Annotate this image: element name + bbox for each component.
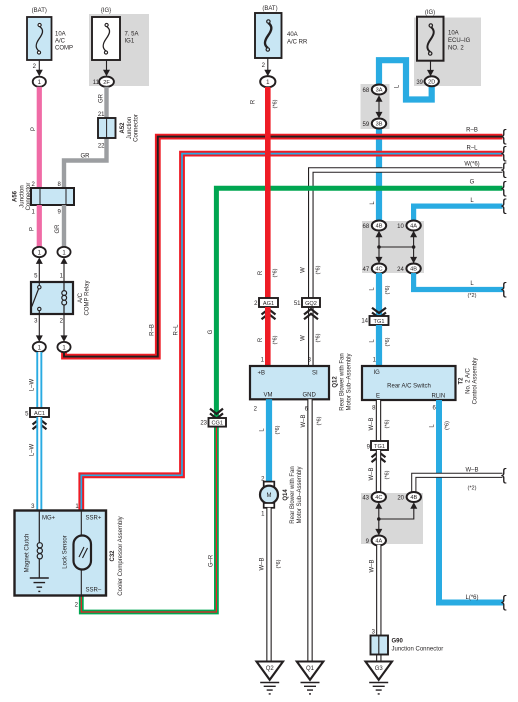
continuation brace R-L [501,143,507,162]
node label L on 2D wire [395,84,401,88]
compressor assembly C32 [15,504,125,609]
svg-text:Junction: Junction [20,185,26,207]
svg-text:Cooler Compressor Assembly: Cooler Compressor Assembly [118,516,124,595]
node 4B block2 [397,492,421,502]
svg-text:A52: A52 [120,122,126,134]
svg-text:4B: 4B [410,495,417,501]
svg-text:(*6): (*6) [445,421,451,430]
svg-text:40A: 40A [287,32,298,38]
svg-text:Junction: Junction [127,117,133,139]
svg-text:T2: T2 [459,377,465,385]
svg-text:68: 68 [363,88,370,94]
continuation brace W-B2 [501,465,507,484]
svg-text:GR: GR [55,224,61,234]
wire L horizontal to 4A [414,206,503,223]
svg-text:MG+: MG+ [42,516,56,522]
continuation brace W [501,160,507,179]
label L (*2) at right edge [467,281,476,299]
svg-text:GND: GND [303,393,317,399]
svg-text:P: P [30,227,36,231]
svg-text:{: { [501,592,507,611]
svg-text:Motor Sub–Assembly: Motor Sub–Assembly [347,353,353,410]
crossover links in block2 [375,502,417,535]
junction connector G90 [371,630,444,655]
svg-text:GQ2: GQ2 [305,301,317,307]
continuation brace G [501,178,507,197]
svg-text:14: 14 [361,319,368,325]
svg-text:Lock Sensor: Lock Sensor [63,535,69,568]
svg-text:39: 39 [416,80,423,86]
svg-text:(IG): (IG) [425,10,435,16]
svg-text:G–R: G–R [209,554,215,567]
svg-text:L–W: L–W [30,378,36,391]
node 1 above relay pin 1 [57,247,70,282]
svg-text:W: W [301,267,307,273]
svg-text:IG: IG [374,370,381,376]
svg-text:Connector: Connector [26,183,32,211]
svg-text:(BAT): (BAT) [32,8,47,14]
wire L-W from AC1 to compressor MG+ [36,417,42,511]
fuse F1 (BAT) 10A A/C COMP [27,8,73,76]
label L-W lower [30,443,36,456]
label P [31,127,37,131]
label W-B (*6) motor ground wire [260,557,283,570]
node 4C block2 [362,492,386,502]
wire L from TG1 to switch IG [376,325,382,367]
label W (*6) above GQ2 [301,265,322,274]
svg-text:A56: A56 [13,190,19,202]
label W-B (*2) at right edge [465,467,478,491]
svg-text:(*6): (*6) [316,265,322,274]
wire W-B from TG1 to 4C [376,450,381,493]
svg-text:(*6): (*6) [276,559,282,568]
svg-text:Rear Blower with Fan: Rear Blower with Fan [340,353,346,410]
svg-text:(BAT): (BAT) [262,6,277,12]
label R (*6) below AG1 [258,335,279,344]
label R-L rotated on vertical [174,324,180,336]
wire R from node 1 to AG1 [265,87,271,299]
label G rotated on vertical [208,329,214,334]
svg-text:GR: GR [81,154,91,160]
svg-text:R: R [251,99,257,104]
svg-text:47: 47 [363,267,370,273]
svg-text:R: R [258,270,264,275]
svg-text:RLIN: RLIN [432,394,446,400]
svg-text:24: 24 [397,267,404,273]
label R-L at right edge [466,146,478,152]
node 4B upper-left [363,221,387,231]
continuation brace L2 [501,279,507,298]
label W-B (*6) GND wire [301,414,323,427]
rear A/C switch T2 [362,358,479,412]
svg-text:4C: 4C [375,495,382,501]
fuse F2 (IG) 7.5A IG1 [92,8,139,86]
svg-text:68: 68 [363,224,370,230]
wire R-B horizontal and vertical to relay [64,137,503,357]
wire W-B from right edge to 4B lower block [414,475,503,493]
svg-text:AC1: AC1 [34,411,45,417]
svg-text:Q12: Q12 [333,376,339,388]
svg-text:GR: GR [99,93,105,103]
svg-text:TG1: TG1 [374,319,385,325]
label L-W upper [30,378,36,391]
wire R from AG1 to Q12 +B [265,307,271,367]
svg-text:Rear A/C Switch: Rear A/C Switch [387,384,431,390]
svg-text:COMP: COMP [55,46,73,52]
svg-text:{: { [501,160,507,179]
panel behind IG1 fuse [89,14,149,86]
svg-text:L(*6): L(*6) [465,595,478,601]
svg-text:(*6): (*6) [385,419,391,428]
ground Q1 [297,662,324,694]
svg-text:{IG}: {IG} [101,8,111,14]
svg-text:R–B: R–B [466,128,478,134]
fuse F3 (BAT) 40A A/C RR [255,6,308,76]
wire GR from 2F to A56 pin 8 [64,87,107,189]
crossover links in relay block [376,231,418,264]
wire G horizontal and vertical to CG1 [216,188,502,419]
fuse F4 (IG) 10A ECU-IG NO.2 [417,10,471,76]
continuation brace L [501,196,507,215]
wire L from 4C to TG1 [376,273,382,316]
svg-text:A/C RR: A/C RR [287,40,308,46]
svg-text:R–B: R–B [150,324,156,336]
svg-text:{: { [501,465,507,484]
label L on wire 3B to 4B [370,201,376,205]
svg-text:3B: 3B [376,122,383,128]
svg-text:W(*6): W(*6) [464,162,479,168]
svg-text:2F: 2F [103,80,110,86]
node 1 below relay pin 2 [57,314,70,352]
svg-text:P: P [31,127,37,131]
svg-text:W–B: W–B [369,417,375,430]
label L at right edge [470,198,474,204]
node 1 below F3 [260,76,275,87]
connector CG1 [200,409,226,427]
svg-text:No. 2 A/C: No. 2 A/C [466,367,472,393]
svg-text:W–B: W–B [260,557,266,570]
label L(*6) at right edge bottom [465,595,478,601]
node 1 below relay pin 3 [33,314,46,352]
svg-text:23: 23 [200,421,207,427]
label R (*6) above AG1 [258,268,279,277]
node 1 below F1 [33,77,46,87]
label G-R rotated [209,554,215,567]
svg-text:SSR+: SSR+ [86,516,102,522]
svg-text:10A: 10A [55,32,66,38]
svg-text:Q2: Q2 [266,666,275,672]
svg-text:43: 43 [362,496,369,502]
panel behind ECU-IG fuse [414,18,481,87]
node 2D below F4 [416,76,439,86]
wire W horizontal and vertical to GQ2 [311,170,503,367]
svg-text:A/C: A/C [55,39,66,45]
wire P from A56 pin 1 to node [37,205,42,247]
wire W-B from 4A to ground G3 [376,545,381,662]
svg-text:4C: 4C [375,267,382,273]
svg-text:Connector: Connector [134,114,140,142]
svg-text:Magnet Clutch: Magnet Clutch [25,534,31,573]
svg-text:COMP Relay: COMP Relay [85,281,91,316]
wire L from 3B to 4B [376,126,382,222]
svg-text:4B: 4B [410,267,417,273]
svg-text:W: W [301,335,307,341]
svg-text:4A: 4A [410,224,417,230]
svg-text:SI: SI [312,371,318,377]
wire L from ECU-IG 2D to 3A [379,60,432,99]
svg-text:G: G [470,180,475,186]
svg-text:(*6): (*6) [385,337,391,346]
svg-text:Motor Sub–Assembly: Motor Sub–Assembly [297,466,303,523]
svg-text:10A: 10A [448,31,459,37]
label R-B at right edge [466,128,478,134]
svg-text:Q14: Q14 [283,489,289,501]
svg-text:59: 59 [363,122,370,128]
blower controller Q12 [250,353,353,412]
svg-text:R–L: R–L [174,324,180,336]
svg-text:M: M [267,493,272,499]
panel behind connectors 3A 3B [361,84,390,129]
svg-text:10: 10 [397,224,404,230]
svg-text:4A: 4A [375,539,382,545]
node 1 above relay pin 5 [33,247,46,282]
svg-text:C32: C32 [110,550,116,562]
svg-text:20: 20 [397,496,404,502]
wire P from node 1 to A56 pin 2 [37,87,42,189]
svg-text:CG1: CG1 [211,421,223,427]
svg-text:G: G [208,329,214,334]
svg-text:Rear Blower with Fan: Rear Blower with Fan [290,466,296,523]
svg-text:(*6): (*6) [273,335,279,344]
label G at right edge [470,180,475,186]
svg-text:IG1: IG1 [125,39,135,45]
relay A/C COMP Relay [31,274,91,325]
wire R-L horizontal and vertical to compressor SSR+ [81,154,502,512]
label GR on horizontal segment [81,154,91,160]
label P lower [30,227,36,231]
svg-text:3A: 3A [376,88,383,94]
label L (*6) on VM wire [260,425,282,434]
svg-text:51: 51 [294,301,301,307]
svg-text:(*2): (*2) [467,293,476,299]
node 4A upper-right [397,221,421,231]
label L (*6) above TG1 [370,285,392,294]
connector TG1 pin 14 [361,308,388,325]
wire L RLIN to right edge [439,400,503,603]
svg-text:W–B: W–B [465,467,478,473]
svg-text:(*6): (*6) [385,285,391,294]
panel behind connectors 4C 4B 4A lower [361,493,423,544]
svg-text:W–B: W–B [369,467,375,480]
ground Q2 [257,662,284,694]
svg-text:(*2): (*2) [467,486,476,492]
motor Q14 [260,466,303,523]
svg-text:7. 5A: 7. 5A [125,32,139,38]
svg-text:G90: G90 [392,639,404,645]
svg-text:(*6): (*6) [273,268,279,277]
svg-text:{: { [501,279,507,298]
node 3B [363,119,387,129]
wire L-W from node to AC1 [36,352,42,409]
node 4B lower-right [397,264,421,274]
svg-text:W–B: W–B [370,559,376,572]
svg-text:{: { [501,196,507,215]
svg-text:R: R [258,337,264,342]
svg-text:{: { [501,178,507,197]
svg-text:A/C: A/C [78,292,84,303]
wire L from 4B to right edge [414,273,503,290]
continuation brace R-B [501,126,507,145]
node 3A [363,85,387,95]
connector TG1 pin 9 [367,441,388,462]
label GR lower [55,224,61,234]
wire W-B from Q12 GND to ground Q1 [307,399,312,662]
svg-text:(*6): (*6) [275,425,281,434]
arrows between 3A and 3B [376,95,383,118]
svg-text:22: 22 [98,144,105,150]
node 2F below F2 [99,77,114,87]
svg-text:Control Assembly: Control Assembly [473,358,479,405]
svg-text:W–B: W–B [301,414,307,427]
wire W-B from motor to ground Q2 [266,508,271,662]
label W (*6) below GQ2 [301,333,322,342]
svg-text:R–L: R–L [466,146,478,152]
svg-text:+B: +B [258,371,266,377]
svg-text:NO. 2: NO. 2 [448,46,464,52]
label W-B below block2 [370,559,376,572]
connector GQ2 [294,298,320,319]
wire W-B from switch E to TG1 [376,400,381,442]
label GR rotated [99,93,105,103]
svg-text:Q1: Q1 [306,666,315,672]
svg-text:VM: VM [264,393,273,399]
junction connector A52 [98,112,140,150]
label W(*6) at right edge [464,162,479,168]
node 4C lower-left [363,264,387,274]
svg-text:(*6): (*6) [273,99,279,108]
connector AG1 [254,298,278,319]
svg-text:(*6): (*6) [317,416,323,425]
wire GR from A56 pin 9 to node [62,205,66,247]
svg-text:ECU–IG: ECU–IG [448,38,471,44]
wire G-R from CG1 to compressor SSR- [81,424,216,612]
wire L from Q12 VM to motor [266,399,272,483]
svg-text:TG1: TG1 [374,444,385,450]
label R-B rotated on vertical [150,324,156,336]
svg-text:(*6): (*6) [316,333,322,342]
label L (*6) on RLIN wire [430,421,451,430]
continuation brace L6 [501,592,507,611]
junction connector A56 [13,182,75,216]
svg-text:(*6): (*6) [385,470,391,479]
panel behind connectors 4B 4A 4C [362,221,424,273]
label R (*6) upper [251,99,279,108]
svg-text:E: E [376,394,380,400]
svg-text:AG1: AG1 [263,301,274,307]
svg-text:G3: G3 [375,666,384,672]
svg-text:2D: 2D [428,79,435,85]
svg-text:L–W: L–W [30,443,36,456]
connector AC1 [25,408,49,429]
label L (*6) below TG1 [370,337,392,346]
svg-text:Junction Connector: Junction Connector [392,647,444,653]
ground G3 [366,662,393,694]
svg-text:4B: 4B [376,224,383,230]
svg-text:SSR–: SSR– [86,588,102,594]
label W-B (*6) below TG1 pin9 [369,467,391,480]
node 4A block2 [366,536,386,546]
label W-B (*6) above TG1 pin9 [369,417,391,430]
